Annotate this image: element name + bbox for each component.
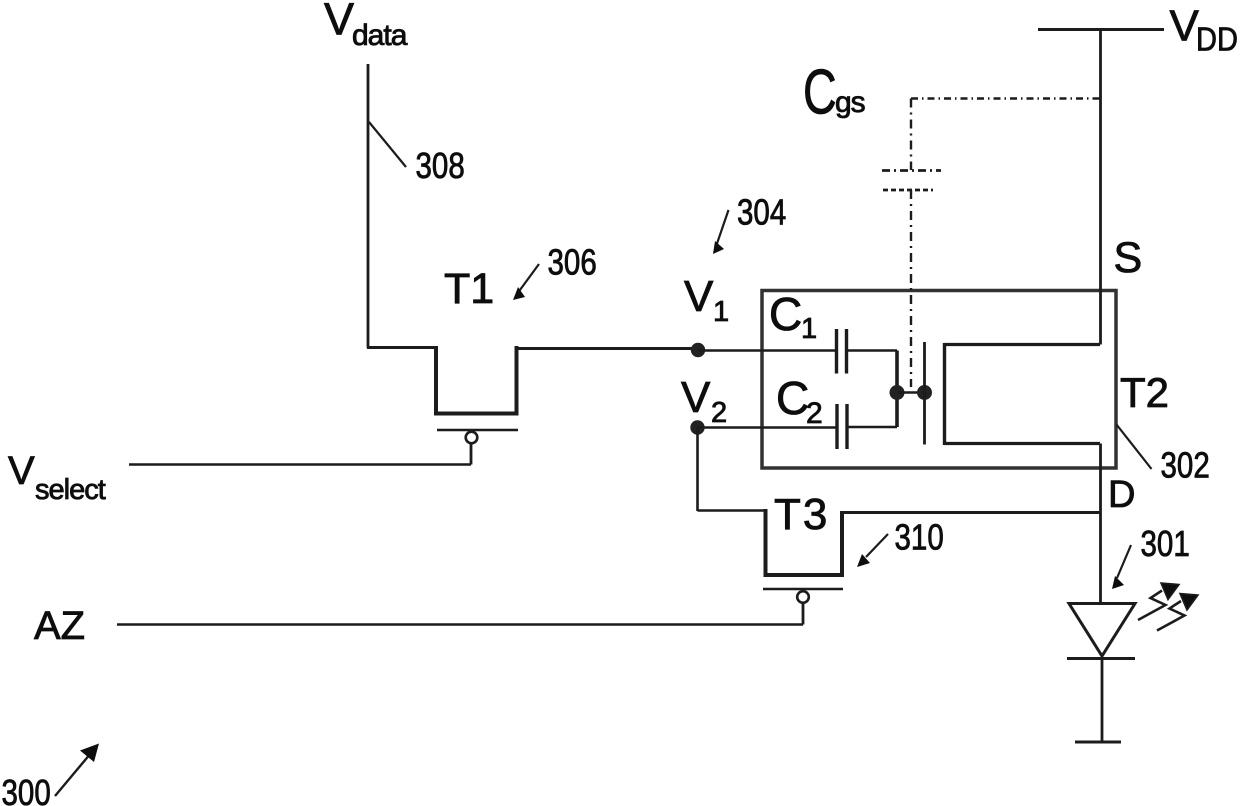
svg-text:2: 2 — [806, 397, 823, 430]
wire Vdata vertical line (node 308) — [367, 64, 370, 348]
label T3 — [774, 490, 829, 539]
wire Vselect horizontal — [129, 463, 471, 466]
svg-text:T2: T2 — [1120, 369, 1169, 416]
svg-text:V: V — [684, 272, 714, 321]
transistor T3 gate bubble — [797, 591, 809, 603]
svg-text:C: C — [769, 288, 802, 340]
svg-text:C: C — [803, 57, 837, 127]
wire link to T2 gate — [897, 391, 925, 394]
transistor T1 channel — [436, 346, 517, 414]
wire T1 gate down to Vselect line — [470, 443, 473, 465]
LED cathode bar — [1067, 657, 1135, 660]
capacitor Cgs bottom plate (dashed) — [883, 189, 933, 192]
svg-text:DD: DD — [1196, 21, 1238, 58]
svg-text:310: 310 — [895, 517, 944, 557]
transistor T3 channel — [766, 509, 843, 575]
svg-text:2: 2 — [711, 397, 727, 429]
arrow 306 — [513, 264, 539, 300]
label C2 — [776, 372, 823, 430]
wire T1 source to node V1 — [515, 347, 698, 350]
node V2 junction dot — [690, 420, 704, 434]
wire T2 drain down to LED — [1099, 444, 1102, 605]
svg-text:S: S — [1114, 234, 1143, 282]
label 302 — [1161, 445, 1210, 485]
ground — [1075, 741, 1121, 744]
svg-text:C: C — [776, 372, 809, 424]
wire VDD top bar — [1038, 28, 1164, 31]
junction dot left — [890, 385, 905, 400]
label 300 — [2, 772, 51, 806]
label T1 — [444, 265, 494, 313]
svg-text:gs: gs — [835, 86, 865, 119]
arrow 300 — [55, 744, 99, 797]
label 301 — [1141, 523, 1190, 563]
svg-text:V: V — [681, 373, 711, 422]
svg-text:AZ: AZ — [34, 604, 85, 648]
wire V2 to T3 drain — [698, 509, 767, 512]
LED D301 triangle — [1069, 604, 1135, 657]
label 304 — [737, 192, 786, 232]
wire T3 source to D line — [841, 511, 1101, 514]
wire LED to ground — [1101, 658, 1104, 742]
svg-text:select: select — [35, 474, 106, 506]
wire junction vertical C1-C2 — [895, 351, 899, 428]
wire VDD vertical to T2 source — [1099, 30, 1102, 345]
label C1 — [769, 288, 817, 345]
node V1 junction dot — [691, 343, 705, 357]
wire C1 to gate junction — [847, 349, 898, 352]
arrow 310 — [857, 534, 888, 567]
wire T2 drain lead — [945, 442, 1101, 445]
transistor T3 gate bar — [763, 588, 843, 591]
LED light emission arrow 2 — [1157, 594, 1198, 631]
box 304 storage block outline — [762, 291, 1116, 469]
wire Cgs dash-dot horizontal to VDD — [911, 97, 1100, 99]
svg-text:D: D — [1108, 474, 1135, 516]
wire AZ horizontal — [117, 623, 803, 626]
wire T2 source lead — [945, 343, 1101, 346]
svg-text:T1: T1 — [444, 265, 494, 313]
wire Cgs dash-dot vertical upper — [910, 99, 912, 171]
svg-text:V: V — [1170, 2, 1200, 51]
LED light emission arrow 1 — [1138, 583, 1179, 620]
label S — [1114, 234, 1143, 282]
wire V2 down to T3 — [696, 428, 699, 512]
wire Vdata to T1 drain — [367, 346, 437, 349]
transistor T2 channel bar — [943, 343, 946, 445]
label 310 — [895, 517, 944, 557]
svg-text:301: 301 — [1141, 523, 1190, 563]
transistor T2 gate bar — [923, 342, 926, 445]
svg-text:306: 306 — [548, 242, 597, 282]
capacitor C2 — [837, 404, 847, 449]
svg-text:1: 1 — [713, 296, 729, 328]
label D — [1108, 474, 1135, 516]
transistor T1 gate bar — [437, 429, 518, 432]
label Vdata — [324, 0, 408, 52]
label T2 — [1120, 369, 1169, 416]
label V1 — [684, 272, 729, 328]
label 306 — [548, 242, 597, 282]
wire T3 gate down to AZ line — [802, 603, 805, 625]
svg-text:304: 304 — [737, 192, 786, 232]
svg-text:300: 300 — [2, 772, 51, 806]
label 308 — [416, 145, 465, 185]
capacitor Cgs top plate (dashed) — [882, 169, 941, 172]
svg-text:V: V — [8, 449, 35, 493]
capacitor C1 — [837, 329, 847, 374]
lead line to 302 — [1117, 425, 1152, 470]
wire C2 to gate junction — [847, 426, 897, 429]
label V2 — [681, 373, 727, 429]
transistor T1 gate bubble — [466, 432, 478, 444]
arrow 304 — [713, 210, 729, 254]
svg-text:data: data — [352, 19, 408, 52]
svg-text:1: 1 — [801, 313, 817, 345]
arrow 301 — [1112, 545, 1131, 589]
label AZ — [34, 604, 85, 648]
label Vselect — [8, 449, 106, 506]
wire V1 to C1 — [698, 349, 837, 352]
svg-text:302: 302 — [1161, 445, 1210, 485]
svg-text:T3: T3 — [774, 490, 829, 539]
svg-text:V: V — [324, 0, 354, 45]
wire Cgs dash-dot vertical lower to T2 gate — [910, 190, 912, 387]
wire V2 to C2 — [698, 426, 837, 429]
lead line to 308 — [369, 122, 406, 167]
svg-text:308: 308 — [416, 145, 465, 185]
junction dot on T2 gate — [917, 385, 932, 400]
label Cgs — [803, 57, 865, 127]
label VDD — [1170, 2, 1238, 58]
